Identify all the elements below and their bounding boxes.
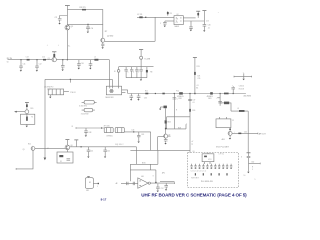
power rail TX [139, 50, 143, 57]
svg-text:C42: C42 [107, 151, 110, 153]
svg-text:X: X [241, 157, 243, 159]
capacitor C14 series [42, 57, 46, 61]
wire TX filter rail [119, 66, 154, 68]
wire Q5 to Q6 [35, 147, 65, 149]
svg-text:.01: .01 [192, 102, 194, 104]
wire TX filter bottom rail [126, 77, 147, 79]
wire U2 out1 [183, 17, 195, 19]
wire Q7 base [158, 137, 164, 151]
wire RFC1 down [140, 59, 142, 66]
resistor R11 series [145, 91, 148, 95]
svg-text:L9: L9 [237, 108, 239, 110]
junction [36, 59, 37, 60]
junction [70, 79, 71, 83]
svg-text:SQL VOL 2: SQL VOL 2 [115, 144, 123, 146]
wire Q7 out [168, 135, 171, 137]
svg-text:5: 5 [255, 179, 256, 181]
transistor Q3 [48, 57, 57, 61]
resistor R26 on feed [189, 109, 195, 112]
svg-text:1 8: 1 8 [176, 18, 178, 20]
svg-text:.01: .01 [208, 27, 210, 29]
capacitor C31 to ground [130, 94, 134, 101]
power rail U2a [196, 11, 200, 18]
wire mixer out pins [122, 90, 128, 93]
wire right out [249, 162, 261, 165]
filter FL1 SAW box [48, 89, 63, 95]
inductor L2 [137, 14, 146, 18]
svg-text:C12: C12 [39, 63, 42, 65]
svg-text:455 KHZ FLT: 455 KHZ FLT [44, 86, 53, 88]
wire U2 pin2 [165, 20, 174, 22]
wire IF amp feed [173, 93, 179, 129]
svg-text:455E D: 455E D [177, 96, 184, 98]
svg-text:+: + [32, 146, 33, 148]
svg-text:2: 2 [186, 123, 187, 125]
ground right rail [247, 163, 249, 173]
svg-text:C52: C52 [161, 188, 164, 190]
svg-text:Q2 330: Q2 330 [107, 36, 113, 38]
oscillator Y2 [81, 108, 95, 115]
wire opamp input [121, 182, 138, 184]
power plus marks [47, 45, 71, 48]
svg-text:VCO: VCO [208, 159, 212, 161]
svg-text:C60: C60 [251, 162, 254, 164]
svg-text:+: + [234, 132, 235, 134]
junction [101, 127, 102, 128]
svg-text:CFW455: CFW455 [106, 135, 112, 137]
capacitor C42 to ground [103, 147, 110, 158]
svg-text:10: 10 [244, 175, 246, 177]
box Z1 [216, 117, 234, 128]
svg-text:M1: M1 [89, 182, 91, 184]
junction [62, 59, 63, 60]
wire bus drop [130, 150, 158, 164]
transistor Q2 [101, 31, 113, 42]
svg-text:PLL MOD 455: PLL MOD 455 [201, 181, 213, 183]
svg-text:UHF RF BOARD VER C SCHEMATIC (: UHF RF BOARD VER C SCHEMATIC (PAGE 4 OF … [141, 192, 247, 197]
wire det out [231, 110, 248, 112]
capacitor C3 [86, 24, 93, 33]
svg-text:C11: C11 [23, 63, 26, 65]
svg-text:C C C C C C C C C C: C C C C C C C C C C [191, 171, 207, 173]
svg-text:U2: U2 [177, 14, 179, 16]
node RX IN [7, 58, 13, 64]
microphone MK1 [85, 176, 99, 192]
wire lower left stub [160, 181, 175, 183]
svg-text:R3 221: R3 221 [80, 7, 86, 9]
wire xtal line [71, 126, 104, 129]
wire Q5 base net [16, 150, 33, 169]
resistor R9 stub [167, 11, 172, 16]
wire collector Q1 [66, 10, 68, 26]
capacitor C27 [203, 25, 211, 32]
inductor RFC1 [140, 56, 151, 60]
svg-text:C: C [127, 71, 129, 73]
junction [220, 93, 221, 94]
svg-text:R11: R11 [145, 91, 148, 93]
svg-text:T2: T2 [191, 144, 193, 146]
svg-text:+: + [243, 72, 244, 74]
wire mixer pin bend [127, 90, 129, 94]
capacitor C23 [135, 67, 139, 78]
capacitor C22 [130, 67, 135, 78]
svg-text:X 455 KHZ: X 455 KHZ [79, 106, 87, 108]
ground osc [26, 124, 28, 127]
junction [233, 93, 234, 94]
svg-text:C30: C30 [208, 25, 211, 27]
box osc feedback [21, 114, 35, 125]
svg-text:FL2: FL2 [176, 90, 179, 92]
wire RX to mixer pin [108, 60, 110, 86]
svg-text:C48: C48 [88, 132, 91, 134]
inductor L7 series [224, 93, 229, 95]
box IF amp cell [167, 117, 190, 130]
inductor L4 to ground [35, 60, 41, 72]
capacitor C34 series [162, 93, 164, 95]
svg-text:+V: +V [191, 141, 194, 143]
box VCO module [202, 153, 214, 164]
svg-text:LO: LO [206, 21, 209, 23]
capacitor C52 to ground [156, 184, 164, 192]
capacitor C51 series [133, 182, 134, 185]
wire mixer top pin [111, 79, 113, 86]
rail Q7 feed [159, 106, 167, 121]
svg-text:L2 C9: L2 C9 [137, 14, 142, 16]
power rail feed R13 [193, 58, 201, 94]
svg-text:Y3: Y3 [31, 116, 33, 118]
svg-text:SA602: SA602 [174, 25, 179, 28]
capacitor C13 series [26, 57, 30, 61]
svg-text:C35: C35 [197, 78, 200, 80]
junction [194, 93, 195, 94]
junction [81, 146, 82, 147]
svg-text:C36 10: C36 10 [239, 86, 244, 88]
wire shield rail [45, 78, 112, 80]
svg-text:455 KHZ: 455 KHZ [243, 96, 251, 98]
ground arrow shield [44, 158, 47, 161]
inductor L3 to ground [19, 60, 25, 72]
filter FL3 [207, 92, 214, 100]
resistor R25 [165, 120, 171, 134]
svg-text:R20: R20 [30, 108, 33, 110]
svg-text:R7: R7 [105, 31, 107, 33]
capacitor C16 to ground [77, 60, 84, 70]
svg-text:2 ND IF: 2 ND IF [70, 92, 76, 94]
transistor Q6 [65, 145, 73, 150]
capacitor C47 on feed [188, 99, 195, 104]
power rail U2b [202, 11, 206, 25]
transistor Q1 [65, 25, 73, 30]
power rail VCC1 top-left [65, 6, 70, 10]
op-amp U4 [138, 176, 151, 188]
svg-text:C13: C13 [26, 57, 29, 59]
resistor bank row2 [195, 173, 228, 175]
capacitor C17 to ground [89, 60, 93, 70]
svg-text:IF: IF [71, 126, 72, 128]
svg-text:C40: C40 [244, 131, 247, 133]
capacitor C25 [160, 21, 167, 27]
wire riser to mixer feed [154, 17, 156, 41]
junction [20, 59, 21, 60]
wire RX line [10, 59, 52, 61]
wire right chain down [247, 111, 249, 153]
power rail osc [25, 103, 29, 110]
inductor L5 series [94, 57, 98, 61]
junction [165, 128, 167, 130]
junction [153, 175, 157, 183]
power rail Q3 [52, 52, 56, 57]
power stub top right [234, 72, 252, 80]
svg-text:AF: AF [116, 182, 118, 185]
svg-text:50: 50 [7, 62, 9, 64]
wire xtal drop [150, 132, 152, 151]
svg-text:CER: CER [208, 98, 212, 100]
svg-text:C16: C16 [81, 63, 84, 65]
svg-text:C2: C2 [55, 17, 57, 19]
capacitor bank row [190, 164, 232, 169]
svg-text:XF1 455: XF1 455 [104, 125, 110, 127]
capacitor C21 [124, 67, 129, 78]
junction [131, 130, 134, 133]
resistor R8 [146, 67, 152, 78]
svg-text:AF OUT: AF OUT [259, 133, 267, 136]
svg-text:NE602 MIX: NE602 MIX [105, 97, 114, 99]
wire opamp feed [129, 164, 131, 181]
svg-text:L: L [138, 71, 139, 73]
wire IF center line [128, 93, 246, 95]
svg-text:R25: R25 [168, 121, 171, 123]
svg-text:CER: CER [178, 98, 182, 100]
capacitor C1 [55, 16, 68, 25]
inductor L8 [220, 102, 231, 112]
svg-text:C: C [133, 71, 135, 73]
wire U4 out [150, 182, 174, 184]
crystal XF1 [104, 125, 114, 132]
svg-text:VCO PLL UNIT: VCO PLL UNIT [216, 146, 230, 148]
svg-text:C44: C44 [131, 130, 134, 132]
wire xtal line right [124, 131, 150, 133]
svg-text:4 5: 4 5 [176, 22, 178, 24]
power rail bus [74, 140, 78, 147]
svg-text:B+: B+ [68, 46, 70, 48]
wire Q2 collector out [105, 40, 155, 42]
svg-text:X 450 KHZ: X 450 KHZ [81, 113, 89, 115]
label bank row2 [191, 177, 199, 179]
svg-text:MIC: MIC [86, 190, 90, 192]
svg-text:10K: 10K [197, 75, 201, 77]
svg-text:C P S L: C P S L [219, 154, 225, 156]
wire top loop Q1 [67, 10, 102, 25]
wire mixer feed [137, 16, 174, 18]
label right marks [241, 157, 256, 181]
svg-text:R: R [176, 109, 178, 111]
svg-text:C33: C33 [144, 97, 147, 99]
capacitor C32 to ground [137, 94, 147, 101]
junction [189, 93, 190, 94]
svg-text:R28: R28 [178, 127, 181, 129]
mixer U3 [105, 86, 121, 99]
capacitor C37 [218, 101, 222, 103]
connector J2 [114, 67, 120, 87]
capacitor C48 to ground [84, 128, 91, 137]
junction [155, 93, 156, 94]
svg-text:50: 50 [114, 71, 116, 73]
svg-text:C45: C45 [141, 134, 144, 136]
wire Q1 emitter to RX line [66, 30, 68, 60]
wire vco feed vertical [189, 94, 191, 153]
ground TX filter [140, 78, 142, 81]
svg-text:+: + [232, 85, 233, 87]
label vco net [191, 141, 194, 146]
svg-text:R8: R8 [150, 71, 152, 73]
resistor R3 [80, 7, 87, 10]
svg-text:.01: .01 [196, 85, 198, 87]
capacitor C50 series [127, 182, 128, 185]
box dashed PLL [188, 153, 239, 188]
wire bus drop right [135, 147, 137, 165]
capacitor C41 to ground [87, 147, 94, 158]
wire audio bus [70, 146, 137, 148]
svg-text:R: R [252, 166, 254, 168]
capacitor C45 to ground [137, 132, 144, 143]
capacitor C24 [139, 67, 142, 78]
transistor Q8 osc [25, 108, 33, 114]
oscillator Y1 [79, 101, 97, 108]
wire U2 out2 [183, 20, 204, 22]
svg-text:1: 1 [97, 186, 98, 188]
node tick [216, 98, 220, 100]
svg-text:R R R R R: R R R R R [191, 177, 199, 179]
wire osc out arrow [14, 111, 25, 113]
svg-text:C: C [160, 23, 162, 25]
svg-text:X1: X1 [60, 161, 62, 163]
svg-text:C4: C4 [91, 28, 93, 30]
label bank row1 [191, 171, 207, 173]
svg-text:R14 1K: R14 1K [239, 88, 245, 90]
svg-text:Q1: Q1 [71, 26, 74, 28]
capacitor C5 emitter [101, 42, 104, 49]
capacitor C46 emitter [164, 138, 168, 144]
wire Q4 out [232, 131, 266, 135]
capacitor C36 feed [231, 85, 245, 94]
transistor Q5 [23, 143, 35, 150]
wire pll bus [130, 149, 190, 151]
junction node A [87, 24, 88, 25]
svg-text:C: C [252, 169, 254, 171]
svg-text:C47: C47 [192, 100, 195, 102]
ground Q4 [229, 135, 231, 139]
ground FL1 [49, 95, 51, 99]
svg-text:K: K [153, 175, 155, 177]
power rail right [247, 153, 251, 164]
svg-text:455E D: 455E D [207, 96, 214, 98]
filter FL2 [176, 90, 184, 100]
svg-text:C14: C14 [42, 57, 45, 59]
svg-text:L5: L5 [94, 57, 96, 59]
wire RX line cont [56, 59, 109, 61]
crystal XF2 [106, 128, 124, 138]
svg-text:AFC: AFC [162, 172, 166, 175]
svg-text:+: + [58, 45, 60, 47]
op-amp U2 IF IC [174, 14, 183, 28]
svg-text:U5: U5 [193, 151, 195, 153]
box Q6 bias [57, 150, 73, 163]
svg-text:R26: R26 [192, 110, 195, 112]
svg-text:AUD: AUD [222, 138, 226, 141]
svg-text:R22: R22 [28, 143, 31, 145]
capacitor C26 to ground [189, 21, 193, 31]
svg-text:Z1: Z1 [232, 120, 234, 122]
wire shield left edge [44, 79, 46, 157]
transistor Q7 [164, 134, 171, 138]
svg-text:+: + [218, 12, 219, 14]
inductor L9 [237, 108, 244, 112]
svg-text:C41: C41 [90, 151, 93, 153]
svg-text:8-17: 8-17 [101, 198, 107, 202]
wire FL1 out [64, 92, 76, 94]
capacitor C15 to ground [61, 60, 65, 71]
svg-text:Q5: Q5 [23, 149, 25, 151]
svg-text:R9: R9 [170, 13, 172, 15]
svg-text:+: + [216, 98, 217, 100]
svg-text:U4: U4 [141, 176, 143, 178]
transistor Q4 [222, 128, 233, 142]
svg-text:R13: R13 [197, 66, 200, 68]
detector branch wire [219, 94, 221, 106]
power rail Q6 [65, 140, 69, 145]
wire afc line [130, 164, 156, 182]
wire Q2 feed [102, 24, 104, 38]
capacitor C53 to ground [164, 183, 168, 191]
junction [67, 59, 68, 60]
svg-text:Tx_EN: Tx_EN [144, 58, 150, 60]
svg-text:B1: B1 [196, 87, 198, 89]
svg-text:Q3: Q3 [48, 58, 50, 60]
svg-text:+: + [47, 45, 49, 47]
